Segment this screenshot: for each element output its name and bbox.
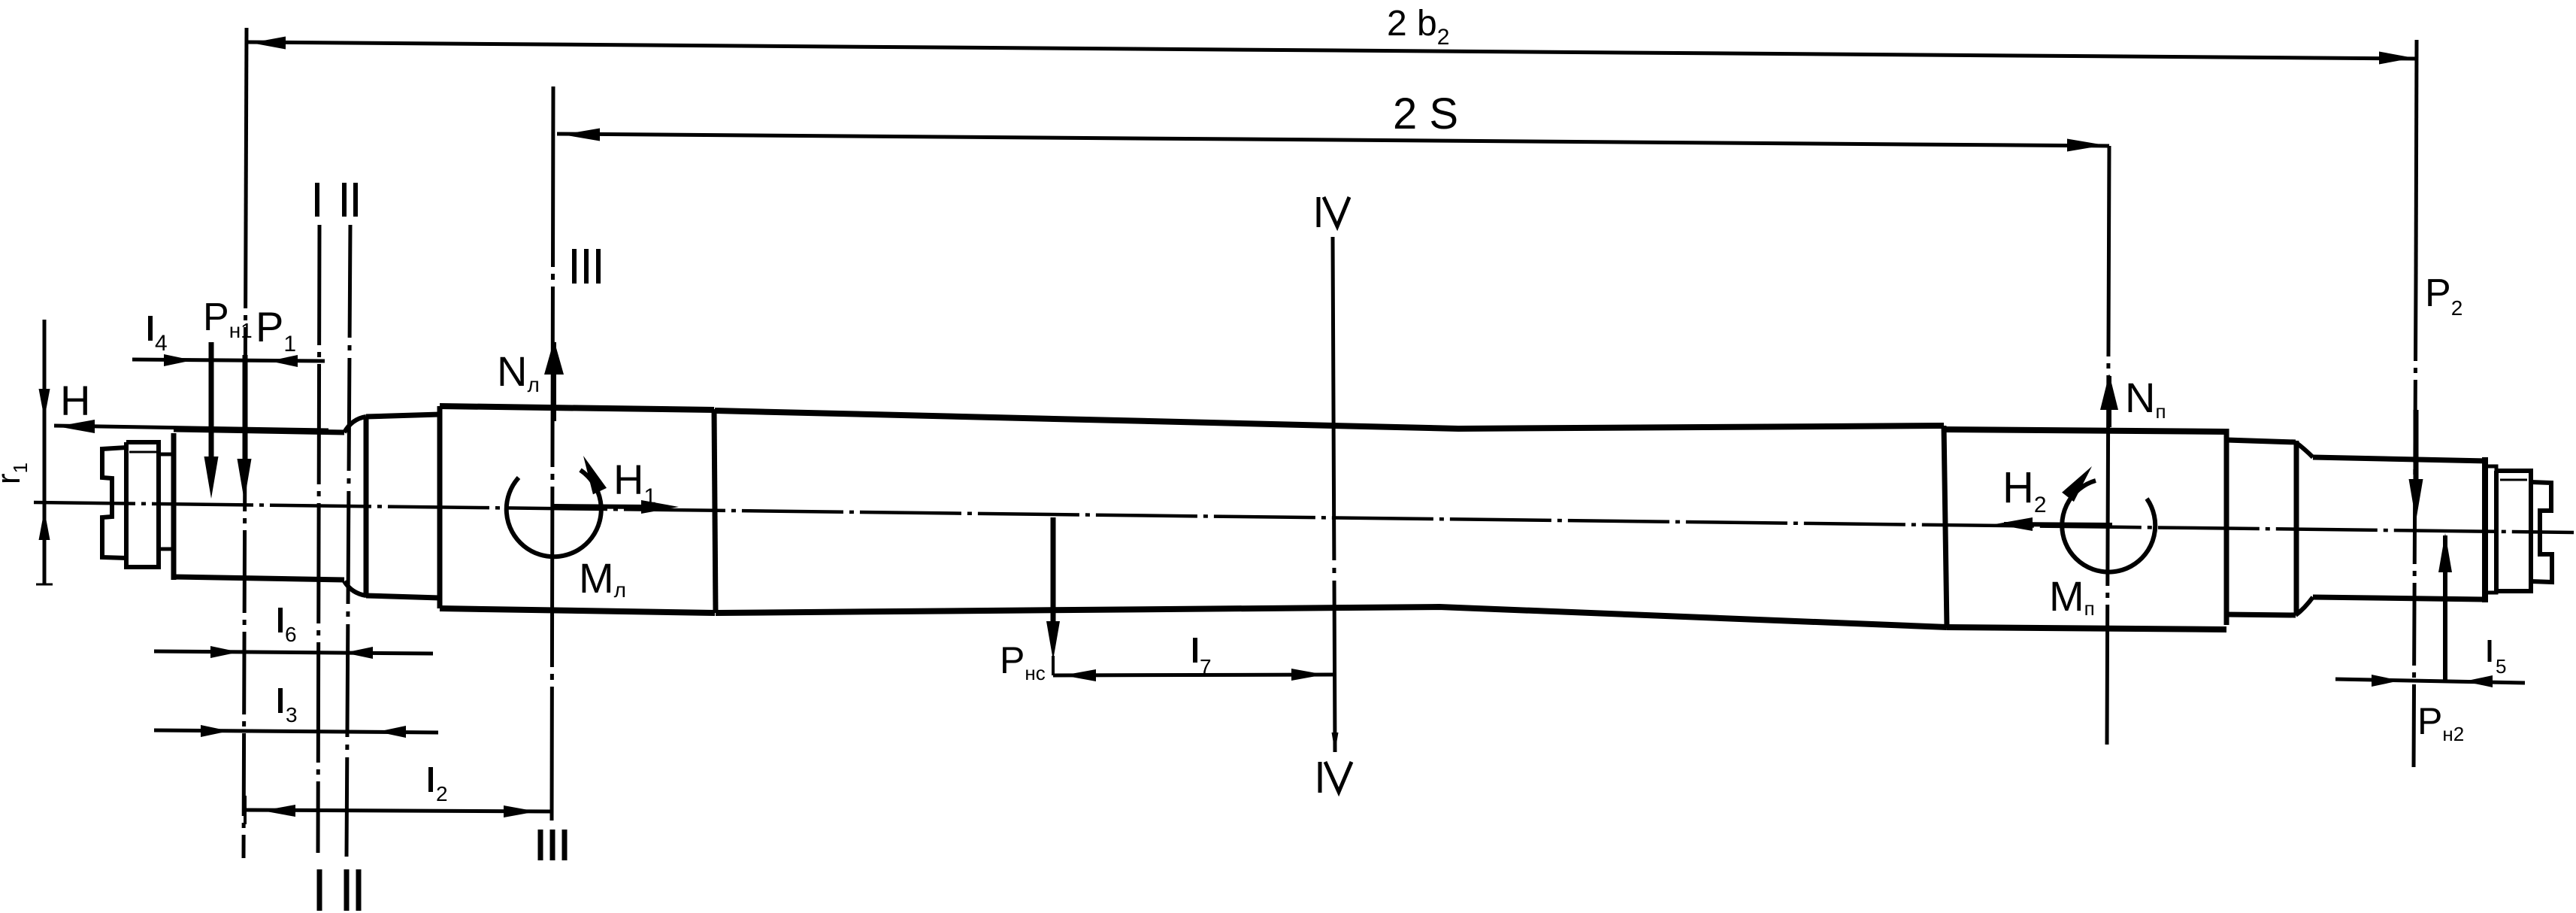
wheel seat bottom right [1947, 627, 2226, 629]
arrowhead l3 left [201, 725, 229, 737]
dimension 2b2 line [248, 42, 2417, 59]
journal end face left [171, 433, 177, 580]
journal top line left [174, 429, 344, 432]
label l4 [148, 316, 153, 341]
arrowhead l4 left [164, 354, 192, 366]
wheel seat left edge left [437, 406, 443, 608]
wheel seat top right [1944, 429, 2226, 432]
journal bottom line left [174, 577, 344, 580]
axle centre line [34, 502, 2574, 532]
moment Mп arc [2062, 481, 2155, 572]
svg-text:6: 6 [285, 623, 297, 646]
dimension l2 line [245, 810, 552, 811]
svg-text:4: 4 [155, 331, 168, 356]
svg-text:2: 2 [436, 782, 448, 805]
wire P2 / 2b2 right extension line [2416, 40, 2417, 278]
label r1 [0, 463, 32, 484]
dust-guard seat top right [2226, 440, 2296, 442]
arrowhead l6 left [210, 646, 239, 658]
moment Mл arc [507, 470, 601, 557]
arrowhead l5 right [2464, 675, 2493, 687]
label II top [342, 183, 347, 217]
arrowhead 2S left [562, 129, 600, 141]
wheel seat bottom left [440, 608, 715, 613]
section line I-I [318, 225, 319, 853]
dust-guard seat left edge left [364, 417, 369, 597]
section line II-II [347, 225, 350, 857]
force Pнс arrow [1051, 517, 1056, 632]
svg-text:2 S: 2 S [1393, 89, 1458, 138]
label III top [572, 249, 577, 284]
arrowhead 2S right [2067, 139, 2105, 152]
wire P1 / 2b2 left extension line [246, 28, 247, 226]
axle end nut right [2531, 482, 2552, 582]
fillet journal-dustguard top left [344, 417, 366, 432]
dimension l7 line [1053, 675, 1335, 675]
axle end washer right [2496, 471, 2531, 591]
arrowhead l4 right [269, 355, 298, 367]
svg-text:7: 7 [1200, 655, 1212, 678]
arrowhead l6 right [344, 647, 373, 659]
force P1 arrow [243, 355, 248, 468]
arrowhead r1 up [39, 510, 50, 540]
journal bottom line right [2313, 597, 2485, 599]
svg-text:5: 5 [2496, 655, 2506, 678]
axle mid-body top line [715, 411, 1944, 429]
arrowhead l7 left [1063, 669, 1096, 681]
arrowhead l7 right [1291, 669, 1324, 681]
arrowhead l5 left [2372, 675, 2400, 687]
force H2 arrow [2004, 524, 2112, 525]
label IV bottom [1318, 762, 1322, 793]
dust-guard seat bottom left [366, 596, 440, 598]
arrowhead l3 right [377, 726, 406, 738]
section line IV-IV [1333, 237, 1335, 752]
wheel seat right edge left [714, 409, 716, 613]
wheel seat left edge right [1944, 426, 1947, 628]
label l5 [2488, 640, 2492, 662]
svg-text:3: 3 [286, 703, 298, 726]
label l6 [278, 608, 283, 632]
dimension l4 line [132, 359, 325, 361]
dust-guard seat right edge right [2294, 441, 2299, 615]
dimension l6 line [154, 651, 433, 654]
arrowhead IV bottom [1332, 733, 1339, 752]
dust-guard seat top left [366, 414, 440, 417]
force H arrow [54, 426, 328, 430]
axle end washer left [126, 442, 159, 567]
arrowhead l2 right [504, 805, 537, 817]
wheel seat top left [440, 406, 714, 410]
force Pн2 arrow [2443, 535, 2447, 683]
journal end face right [2482, 457, 2488, 602]
dimension r1 line [43, 320, 47, 585]
label II bottom [344, 869, 350, 911]
force Nл arrow [552, 342, 556, 421]
dimension l5 line [2335, 679, 2525, 683]
axle mid-body bottom line [716, 607, 1947, 627]
fillet dustguard-journal bottom right [2296, 597, 2313, 615]
dimension 2S line [557, 134, 2109, 146]
arrowhead r1 down [39, 389, 50, 419]
label III bottom [538, 830, 543, 860]
dimension l3 line [154, 730, 438, 733]
arrowhead 2b2 right [2379, 52, 2414, 65]
arrowhead l2 left [262, 805, 295, 817]
axle end nut left [102, 447, 126, 558]
section line III-III [552, 86, 553, 820]
dust-guard seat bottom right [2226, 614, 2296, 615]
axle end collar right [2485, 466, 2496, 593]
wheel seat right edge right [2224, 429, 2229, 625]
journal top line right [2313, 457, 2485, 461]
force Nп arrow [2107, 376, 2111, 427]
label l7 [1193, 638, 1197, 663]
fillet journal-dustguard bottom left [344, 581, 366, 596]
force Pн1 arrow [209, 342, 214, 466]
axle end collar left [159, 454, 174, 549]
wire Nп / 2S right extension line [2107, 146, 2109, 745]
label I bottom [317, 869, 322, 911]
force H1 arrow [554, 506, 648, 507]
label l2 [428, 767, 433, 792]
label l3 [278, 688, 283, 713]
label IV top [1317, 197, 1321, 227]
label I top [315, 183, 319, 217]
force P2 arrow [2414, 410, 2419, 487]
svg-text:H: H [60, 377, 90, 424]
fillet dustguard-journal top right [2296, 442, 2313, 457]
arrowhead 2b2 left [251, 37, 286, 50]
